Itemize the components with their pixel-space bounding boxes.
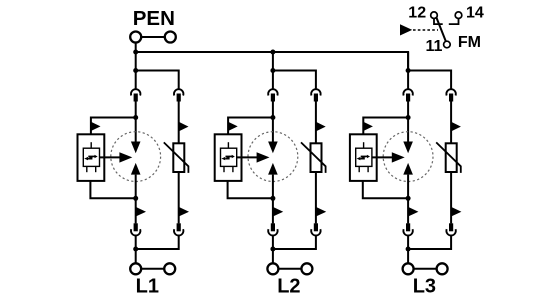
wire: varistor column lower L2: [315, 172, 317, 223]
spark symbol right arrow head L1: [95, 155, 98, 158]
wire: bottom join L3: [408, 236, 451, 264]
svg-text:12: 12: [408, 4, 426, 21]
plug-in disconnect socket, left column L3: [403, 89, 412, 95]
plug-in disconnect pin, left column L3: [406, 94, 410, 102]
plug-in disconnect socket, left column L2: [268, 89, 277, 95]
node: bottom junction L3: [406, 247, 411, 252]
trigger arrow head L2: [257, 152, 270, 162]
plug-in disconnect socket, left column L1: [131, 89, 140, 95]
node: split junction L3: [406, 68, 411, 73]
terminal circle PEN right: [165, 32, 176, 43]
terminal circle L1 right: [164, 263, 175, 274]
wire: tap to spark gap housing L2: [228, 118, 273, 135]
node: bus junction L2: [270, 50, 275, 55]
svg-text:L2: L2: [277, 276, 300, 298]
main gap arrow down L1: [131, 142, 141, 154]
main gap arrow up L1: [131, 163, 141, 175]
node: spark-gap tap junction L2: [270, 115, 275, 120]
main gap arrow down L2: [268, 142, 278, 154]
spark gap top electrode L2: [227, 142, 229, 148]
spark symbol diagonal L1: [89, 157, 93, 159]
triggering circuit circle (dashed) L2: [248, 132, 298, 182]
spark symbol diagonal L2: [226, 157, 230, 159]
varistor body L3: [446, 143, 457, 172]
wire: bottom join L2: [273, 236, 316, 264]
wire: left column lower L1: [135, 175, 137, 224]
varistor body L2: [311, 143, 322, 172]
spark gap top electrode L3: [363, 142, 365, 148]
terminal link wire L3: [414, 268, 437, 270]
svg-text:14: 14: [466, 4, 484, 21]
contact lever 11-12: [437, 18, 446, 41]
trigger arrow head L1: [119, 152, 132, 162]
spark gap housing box L1: [78, 134, 105, 181]
wire: left column lower L3: [407, 175, 409, 224]
svg-text:L1: L1: [136, 276, 159, 298]
spark symbol diagonal L3: [361, 157, 365, 159]
varistor diagonal stroke L1: [164, 142, 189, 173]
thermal disconnect flag, spark gap branch L2: [228, 122, 238, 131]
varistor body L1: [173, 143, 184, 172]
node: housing return junction L1: [133, 196, 138, 201]
wire: varistor column upper L1: [178, 102, 180, 144]
wire: tap to spark gap housing L1: [91, 118, 136, 135]
plug-in disconnect pin, varistor bottom L3: [449, 223, 453, 231]
node: split junction L2: [270, 68, 275, 73]
plug-in disconnect socket, left bottom L3: [403, 229, 412, 235]
contact terminal 14: [455, 12, 462, 19]
wire: left column upper L2: [272, 102, 274, 143]
thermal disconnect flag, varistor upper L2: [316, 122, 326, 132]
main gap arrow up L2: [268, 163, 278, 175]
actuator arrow FM: [400, 24, 412, 35]
trigger arrow shaft L3: [372, 156, 393, 158]
wire: spark gap housing bottom return L2: [228, 181, 273, 198]
svg-text:11: 11: [425, 38, 442, 55]
terminal circle L2 left: [267, 263, 278, 274]
spark symbol right arrow head L3: [367, 155, 370, 158]
terminal circle L2 right: [301, 263, 312, 274]
triggering circuit circle (dashed) L3: [383, 132, 433, 182]
main gap arrow up L3: [403, 163, 413, 175]
node: spark-gap tap junction L3: [406, 115, 411, 120]
thermal disconnect flag, spark gap branch L1: [91, 122, 101, 131]
spark symbol right arrow head L2: [232, 155, 235, 158]
thermal disconnect flag, varistor upper L3: [451, 122, 461, 132]
plug-in disconnect pin, left bottom L2: [271, 223, 275, 231]
wire: left bottom drop L1: [135, 236, 137, 249]
node: bottom junction L2: [270, 247, 275, 252]
wire: tap to spark gap housing L3: [363, 118, 408, 135]
spark gap bottom electrode b L1: [95, 166, 97, 172]
terminal link wire PEN: [141, 36, 165, 38]
thermal disconnect flag, left lower L3: [408, 207, 418, 217]
terminal link wire L1: [141, 268, 164, 270]
wire: varistor column lower L3: [450, 172, 452, 223]
spark symbol right arrow L3: [361, 155, 368, 157]
plug-in disconnect socket, left bottom L2: [268, 229, 277, 235]
terminal circle L1 left: [130, 263, 141, 274]
terminal circle PEN left: [130, 32, 141, 43]
terminal circle L3 left: [403, 263, 414, 274]
wire: varistor column upper L3: [450, 102, 452, 144]
terminal link wire L2: [278, 268, 301, 270]
spark symbol right arrow L2: [226, 155, 233, 157]
wire: spark gap housing bottom return L3: [363, 181, 408, 198]
spark gap element box L2: [221, 148, 237, 166]
plug-in disconnect pin, varistor bottom L1: [177, 223, 181, 231]
spark gap bottom electrode b L2: [232, 166, 234, 172]
wire: left bottom drop L2: [272, 236, 274, 249]
contact terminal 12: [431, 12, 438, 19]
node: spark-gap tap junction L1: [133, 115, 138, 120]
spark gap bottom electrode b L3: [367, 166, 369, 172]
spark symbol right arrow L1: [88, 155, 95, 157]
thermal disconnect flag, left lower L2: [273, 207, 283, 217]
spark gap element box L3: [356, 148, 372, 166]
wire: contact 14 bend: [449, 19, 459, 24]
thermal disconnect flag, varistor lower L1: [179, 207, 189, 217]
wire: feed L2 from PEN bus: [272, 52, 274, 89]
plug-in disconnect pin, varistor column L2: [314, 94, 318, 102]
spark symbol left arrow L3: [360, 158, 364, 160]
plug-in disconnect socket, varistor bottom L2: [311, 229, 320, 235]
thermal disconnect flag, left lower L1: [136, 207, 146, 217]
wire: feed L1 from PEN bus: [135, 52, 137, 89]
svg-text:L3: L3: [413, 276, 436, 298]
trigger arrow head L3: [392, 152, 405, 162]
node: housing return junction L3: [406, 196, 411, 201]
wire: left column upper L1: [135, 102, 137, 143]
wire: left column lower L2: [272, 175, 274, 224]
node: housing return junction L2: [270, 196, 275, 201]
plug-in disconnect pin, varistor column L3: [449, 94, 453, 102]
node: bus junction L1: [133, 50, 138, 55]
varistor diagonal stroke L2: [301, 142, 326, 173]
wire: varistor column upper L2: [315, 102, 317, 144]
plug-in disconnect pin, left bottom L3: [406, 223, 410, 231]
node: split junction L1: [133, 68, 138, 73]
plug-in disconnect pin, left column L1: [134, 94, 138, 102]
spark gap bottom electrode a L3: [358, 166, 360, 172]
wire: branch to varistor column L2: [273, 71, 316, 89]
wire: left bottom drop L3: [407, 236, 409, 249]
wire: PEN bus: [136, 52, 408, 71]
wire: branch to varistor column L1: [136, 71, 179, 89]
plug-in disconnect socket, varistor column L2: [311, 89, 320, 95]
plug-in disconnect socket, varistor bottom L1: [174, 229, 183, 235]
svg-text:PEN: PEN: [133, 7, 175, 30]
spark symbol left arrow head L1: [84, 157, 88, 160]
thermal disconnect flag, spark gap branch L3: [363, 122, 373, 131]
spark gap bottom electrode a L1: [86, 166, 88, 172]
spark symbol left arrow L1: [88, 158, 92, 160]
terminal circle L3 right: [437, 263, 448, 274]
main gap arrow down L3: [403, 142, 413, 154]
trigger arrow shaft L2: [237, 156, 258, 158]
wire: bottom join L1: [136, 236, 179, 264]
varistor diagonal stroke L3: [436, 142, 461, 173]
spark symbol left arrow head L3: [357, 157, 361, 160]
wire: spark gap housing bottom return L1: [90, 181, 135, 198]
plug-in disconnect pin, left bottom L1: [134, 223, 138, 231]
spark gap element box L1: [83, 148, 99, 166]
svg-text:FM: FM: [458, 34, 481, 51]
triggering circuit circle (dashed) L1: [111, 132, 161, 182]
wire: left column upper L3: [407, 102, 409, 143]
spark gap bottom electrode a L2: [223, 166, 225, 172]
wire: feed L3 from PEN bus: [407, 52, 409, 89]
thermal disconnect flag, varistor lower L2: [316, 207, 326, 217]
plug-in disconnect socket, varistor column L3: [446, 89, 455, 95]
spark gap housing box L3: [350, 134, 377, 181]
thermal disconnect flag, varistor lower L3: [451, 207, 461, 217]
wire: PEN drop: [135, 42, 137, 52]
plug-in disconnect socket, varistor bottom L3: [446, 229, 455, 235]
wire: branch to varistor column L3: [408, 71, 451, 89]
node: bottom junction L1: [133, 247, 138, 252]
plug-in disconnect pin, varistor column L1: [177, 94, 181, 102]
contact terminal 11: [444, 41, 451, 48]
spark symbol left arrow L2: [225, 158, 229, 160]
thermal disconnect flag, varistor upper L1: [179, 122, 189, 132]
actuator dashed link FM: [413, 29, 438, 31]
wire: contact 12 bend: [434, 19, 443, 24]
spark gap top electrode L1: [90, 142, 92, 148]
plug-in disconnect socket, varistor column L1: [174, 89, 183, 95]
plug-in disconnect socket, left bottom L1: [131, 229, 140, 235]
plug-in disconnect pin, left column L2: [271, 94, 275, 102]
plug-in disconnect pin, varistor bottom L2: [314, 223, 318, 231]
spark symbol left arrow head L2: [221, 157, 225, 160]
spark gap housing box L2: [215, 134, 242, 181]
wire: varistor column lower L1: [178, 172, 180, 223]
trigger arrow shaft L1: [100, 156, 121, 158]
